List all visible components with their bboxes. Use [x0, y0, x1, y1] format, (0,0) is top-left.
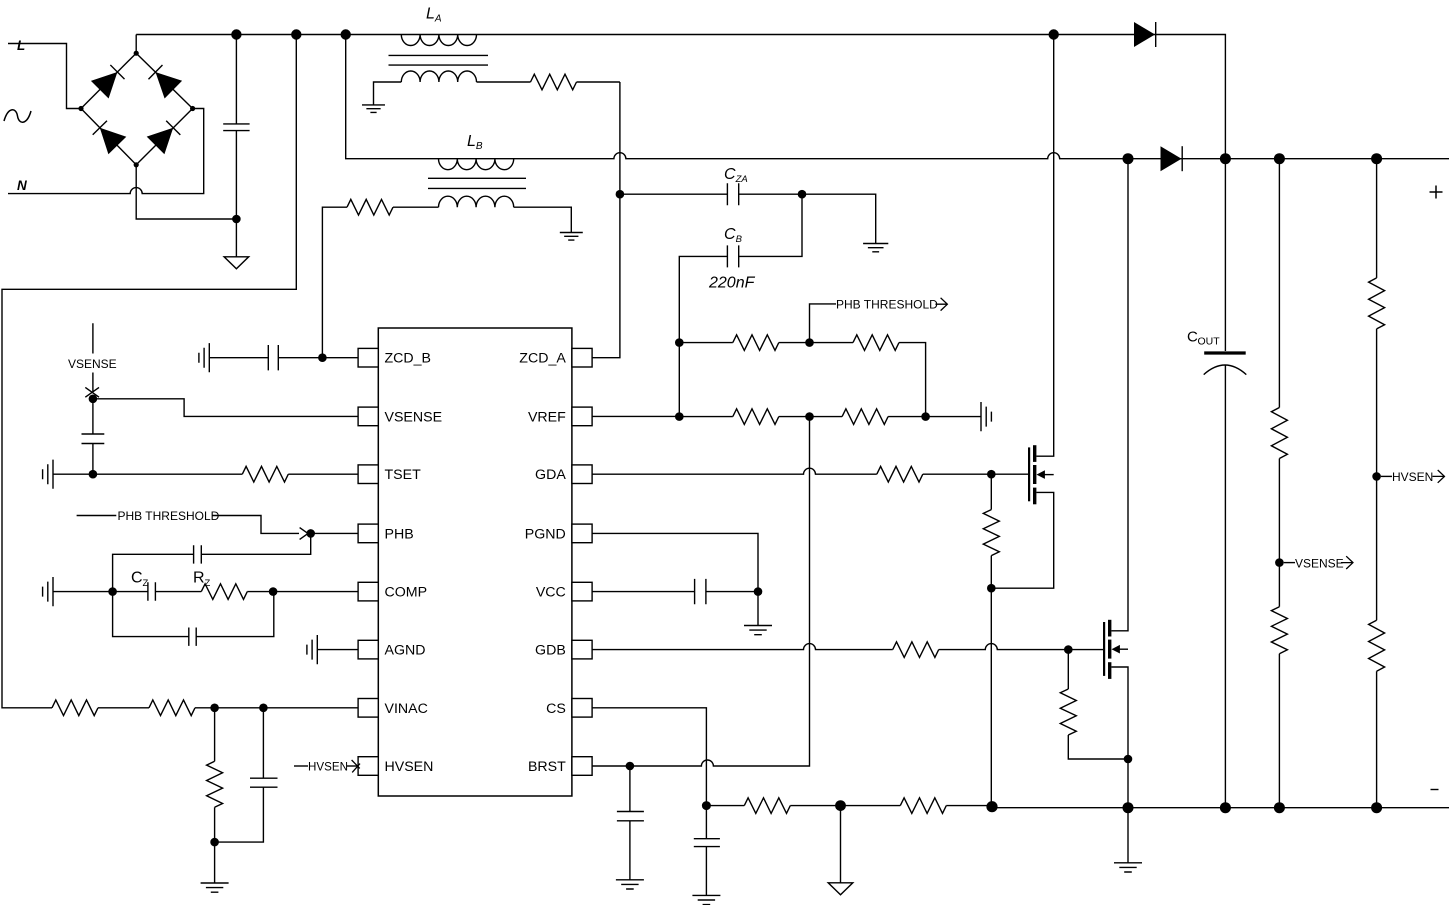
label VSENSE (net): [68, 357, 117, 371]
junction VINAC cap: [259, 704, 268, 713]
resistor R-PHB-upper-right: [853, 335, 899, 351]
wire COMP row left: [53, 591, 148, 593]
junction neg rail / QB: [1123, 802, 1134, 813]
junction rail2 / HVSEN divider: [1371, 153, 1382, 164]
junction top rail / left border: [291, 29, 301, 39]
junction shunt / neg rail: [986, 801, 997, 812]
wire shunt right: [946, 805, 992, 807]
ground BRST: [616, 880, 644, 889]
label COUT: [1187, 329, 1220, 348]
capacitor VSENSE: [82, 434, 105, 444]
wire CS: [592, 708, 707, 806]
label PHB THRESHOLD (net): [836, 298, 938, 312]
AC source symbol: [4, 110, 31, 122]
transistor QA: [1029, 445, 1054, 504]
junction HVSEN tap (output): [1372, 472, 1381, 481]
wire VCC ground: [757, 592, 759, 626]
wire bridge bottom to cap: [136, 165, 236, 219]
label RZ: [193, 570, 211, 590]
svg-text:TSET: TSET: [385, 467, 422, 483]
junction top rail / phase B branch: [341, 29, 351, 39]
ground CS: [692, 895, 720, 904]
wire PHB cap to COMP node: [113, 554, 194, 591]
junction row2 right: [921, 412, 930, 421]
label CZ: [131, 570, 149, 590]
wire VINAC mid: [98, 707, 149, 709]
junction VCC/PGND: [754, 587, 763, 596]
wire PHB threshold to pin: [212, 516, 299, 534]
label + output: [1430, 186, 1443, 199]
wire GDB resistor to gate: [939, 644, 1103, 650]
svg-text:VREF: VREF: [528, 409, 566, 425]
wire VINAC resistor to ground node: [214, 807, 216, 842]
resistor GDA gate: [877, 466, 923, 482]
capacitor CB: [727, 245, 738, 267]
wire VREF node to BRST: [630, 417, 810, 766]
svg-text:CS: CS: [546, 701, 566, 717]
junction ZCD_A / CZA: [616, 190, 625, 199]
svg-text:220nF: 220nF: [708, 275, 756, 292]
wire VSENSE tap to cap: [92, 399, 94, 434]
ground AGND: [307, 635, 317, 664]
ground LA aux: [362, 105, 385, 113]
svg-text:R: R: [193, 570, 205, 587]
bridge diode bottom-right: [136, 109, 192, 165]
wire QA gate resistor top: [990, 474, 992, 509]
label PHB THRESHOLD (left net): [118, 509, 220, 523]
svg-text:GDB: GDB: [535, 643, 566, 659]
junction VINAC ground node: [210, 838, 219, 847]
capacitor COMP feedback: [189, 628, 196, 646]
wire shunt mid: [790, 805, 900, 807]
junction COMP left: [108, 587, 117, 596]
core LB: [428, 178, 526, 188]
junction BRST: [626, 762, 635, 771]
capacitor CZA: [727, 183, 738, 205]
arrow PHB input: [300, 528, 312, 540]
diode DB: [1161, 146, 1183, 171]
arrow HVSEN input: [352, 760, 360, 772]
wire HVSEN tap dash: [1381, 475, 1392, 477]
wire VSENSE to pin: [93, 399, 358, 417]
wire QB source: [1111, 667, 1128, 759]
wire rail2 to RH1: [1376, 159, 1378, 278]
junction QA source node: [987, 584, 996, 593]
bridge node right: [190, 106, 195, 111]
wire RH2 to neg rail: [1376, 671, 1378, 808]
ground negative rail: [1114, 863, 1142, 872]
svg-text:HVSEN: HVSEN: [1392, 470, 1433, 484]
resistor VSENSE divider upper: [1271, 408, 1287, 459]
wire VREF pin to row2: [592, 415, 679, 417]
ground chassis (shunt): [828, 883, 853, 895]
wire VINAC cap to ground node: [215, 787, 264, 842]
svg-text:L: L: [17, 38, 25, 53]
wire negative rail: [992, 807, 1449, 809]
wire rail2 to COUT: [1224, 159, 1226, 351]
junction CS / shunt: [702, 801, 711, 810]
wire CS cap: [705, 806, 707, 839]
resistor HVSEN divider lower: [1369, 620, 1385, 671]
wire VINAC cap branch: [262, 708, 264, 778]
svg-text:GDA: GDA: [535, 467, 566, 483]
svg-text:AGND: AGND: [385, 643, 426, 659]
junction GDB gate node: [1064, 645, 1073, 654]
wire GDA row: [592, 468, 877, 474]
capacitor PHB-COMP: [194, 545, 202, 563]
wire shunt mid to chassis: [840, 806, 842, 883]
wire VINAC to pin: [195, 707, 358, 709]
label LB: [467, 133, 483, 152]
resistor VSENSE divider lower: [1271, 607, 1287, 654]
junction GDA gate node: [987, 470, 996, 479]
wire COUT to neg rail: [1224, 365, 1226, 808]
resistor QB gate-source: [1060, 689, 1076, 735]
arrow PHB THRESHOLD: [935, 298, 947, 311]
bridge node top: [134, 51, 139, 56]
svg-text:C: C: [131, 570, 143, 587]
junction COMP right: [269, 587, 278, 596]
wire ZCD_A vertical: [592, 82, 620, 358]
junction neg rail / COUT: [1220, 802, 1231, 813]
wire row2 to ground: [888, 416, 981, 418]
inductor LB aux winding: [439, 196, 514, 207]
resistor VINAC-2: [149, 700, 195, 716]
x-mark VSENSE tap: [85, 387, 99, 397]
svg-text:C: C: [1187, 329, 1198, 346]
wire QB drain to rail2: [1111, 159, 1128, 631]
wire RV2 to neg rail: [1278, 654, 1280, 808]
ground TSET: [43, 460, 53, 489]
resistor RZ: [201, 584, 247, 600]
wire ZCD_A to CZA: [620, 193, 728, 195]
junction QB source node: [1124, 755, 1133, 764]
svg-text:VSENSE: VSENSE: [1295, 556, 1344, 570]
svg-text:VSENSE: VSENSE: [68, 357, 117, 371]
ground COMP: [43, 577, 53, 606]
svg-text:VCC: VCC: [536, 585, 566, 601]
wire LA resistor to ZCD_A drop: [577, 81, 620, 83]
junction VSENSE tap (output): [1275, 558, 1284, 567]
wire VCC cap to ground node: [706, 591, 758, 593]
wire left border to VINAC: [2, 35, 296, 708]
svg-text:OUT: OUT: [1198, 336, 1221, 348]
node N (neutral input): [17, 178, 27, 193]
wire N input to bridge: [8, 109, 204, 194]
ground chassis (input): [224, 257, 249, 269]
wire COMP feedback cap: [113, 592, 274, 637]
wire ZCD_B ground to cap: [209, 357, 268, 359]
junction top rail / QA drain: [1049, 29, 1059, 39]
wire VINAC to lower resistor: [214, 708, 216, 762]
wire PHB threshold tap: [810, 304, 837, 343]
resistor shunt-2: [900, 798, 946, 814]
wire PGND: [592, 533, 758, 591]
capacitor input filter: [223, 124, 249, 131]
bridge diode bottom-left: [81, 109, 136, 165]
resistor GDB gate: [893, 642, 939, 658]
ground VINAC: [201, 883, 229, 892]
wire top rail: [136, 35, 1225, 159]
wire BRST: [592, 765, 630, 767]
wire CS cap to ground: [705, 847, 707, 896]
wire QA drain to top rail: [1036, 35, 1053, 457]
wire QB source to neg rail: [1127, 759, 1129, 808]
wire PHB threshold stub left: [77, 515, 117, 517]
resistor R-VREF-right: [842, 409, 888, 425]
wire CB to divider: [679, 256, 727, 342]
resistor R-PHB-upper-left: [733, 335, 779, 351]
junction TSET / VSENSE cap: [89, 470, 98, 479]
svg-text:N: N: [17, 178, 27, 193]
wire CZ to RZ: [155, 591, 201, 593]
wire L input to bridge: [8, 44, 79, 109]
label CZA: [724, 166, 748, 185]
wire row2 left: [679, 416, 733, 418]
capacitor COUT plate-: [1204, 365, 1247, 375]
resistor VINAC lower: [207, 761, 223, 807]
junction ZCD_B: [318, 353, 327, 362]
wire to chassis ground: [235, 219, 237, 257]
svg-text:PHB: PHB: [385, 526, 414, 542]
resistor VINAC-1: [52, 700, 98, 716]
wire VSENSE tap dash: [1284, 562, 1295, 564]
svg-text:PHB THRESHOLD: PHB THRESHOLD: [118, 509, 220, 523]
svg-text:ZCD_B: ZCD_B: [385, 351, 432, 367]
capacitor BRST: [617, 812, 644, 821]
label CB: [724, 226, 743, 245]
wire to VINAC ground: [214, 842, 216, 883]
wire BRST cap to ground: [629, 821, 631, 880]
wire CB right: [739, 194, 802, 256]
junction VSENSE tap: [89, 395, 98, 404]
bridge diode top-left: [81, 53, 136, 108]
capacitor CZ: [148, 582, 156, 601]
wire QB resistor to source node: [1068, 735, 1128, 759]
junction rail2 / DA cathode: [1220, 153, 1231, 164]
wire PHB to cap: [201, 533, 310, 554]
wire QB gate resistor: [1067, 650, 1069, 689]
wire HVSEN stub: [294, 765, 308, 767]
svg-text:HVSEN: HVSEN: [385, 759, 434, 775]
wire ZCD_B cap to pin: [278, 357, 358, 359]
ground ZCD_B: [199, 343, 209, 372]
wire CZA to ground: [739, 194, 876, 243]
wire neg rail ground drop: [1127, 808, 1129, 863]
capacitor VCC: [695, 579, 706, 604]
wire TSET row: [53, 473, 242, 475]
diode DA: [1134, 22, 1156, 47]
capacitor VINAC: [250, 778, 278, 787]
junction row2 mid: [805, 412, 814, 421]
wire QA source to shunt: [990, 588, 992, 808]
wire VSENSE cap to TSET row: [92, 444, 94, 475]
wire rail2 to RV1: [1278, 159, 1280, 408]
wire LA aux left to ground: [374, 82, 402, 105]
label LA: [426, 5, 442, 24]
ground VREF divider: [981, 402, 991, 431]
svg-text:BRST: BRST: [528, 759, 566, 775]
wire RH1 to tap: [1376, 329, 1378, 477]
resistor HVSEN divider upper: [1369, 278, 1385, 329]
wire GDB row: [592, 644, 893, 650]
wire LA aux to resistor: [477, 81, 531, 83]
wire PHB junction to pin: [311, 532, 358, 534]
svg-text:ZCD_A: ZCD_A: [519, 351, 566, 367]
wire BRST cap: [629, 766, 631, 812]
label - output: [1431, 789, 1439, 791]
wire VCC to cap: [592, 591, 695, 593]
svg-text:PGND: PGND: [525, 526, 566, 542]
wire LB aux to resistor: [393, 206, 439, 208]
wire tap to RH2: [1376, 476, 1378, 620]
junction row1 left: [675, 338, 684, 347]
wire row1 to row2: [899, 343, 926, 417]
wire row1 left: [679, 342, 733, 344]
svg-text:COMP: COMP: [385, 585, 428, 601]
wire GDA resistor to gate: [923, 473, 1028, 475]
junction PHB: [306, 529, 315, 538]
wire LB resistor to ZCD_B: [322, 207, 347, 358]
wire HVSEN arrow stem: [347, 765, 358, 767]
wire TSET resistor to pin: [288, 473, 358, 475]
junction shunt mid: [835, 800, 846, 811]
junction neg rail / VSENSE divider: [1274, 802, 1285, 813]
label 220nF: [708, 275, 756, 292]
wire bridge top to rail: [135, 35, 137, 54]
ground CZA: [863, 244, 888, 252]
IC pin labels left: [385, 351, 443, 775]
inductor LA aux winding: [401, 71, 476, 82]
capacitor CS filter: [694, 839, 720, 847]
svg-text:PHB THRESHOLD: PHB THRESHOLD: [836, 298, 938, 312]
junction input cap bottom: [232, 215, 241, 224]
wire RV1 to tap: [1278, 459, 1280, 563]
bridge node bottom: [134, 162, 139, 167]
IC U1 controller body and pin boxes: [358, 328, 592, 796]
junction row1 mid: [805, 338, 814, 347]
junction neg rail / HVSEN divider: [1371, 802, 1382, 813]
inductor LA: [401, 35, 476, 46]
svg-text:VINAC: VINAC: [385, 701, 428, 717]
resistor R-VREF-left: [733, 409, 779, 425]
inductor LB: [439, 159, 514, 170]
wire AGND: [317, 649, 358, 651]
wire QA source: [991, 492, 1053, 588]
wire RZ to pin: [247, 591, 358, 593]
resistor LA zcd: [531, 74, 577, 90]
bridge diode top-right: [136, 53, 192, 108]
ground VCC: [744, 626, 772, 635]
arrow HVSEN output: [1433, 470, 1445, 483]
wire row1-row2 link: [678, 343, 680, 417]
ground LB aux: [560, 233, 583, 241]
IC pin labels right: [519, 351, 566, 775]
wire input cap to bottom node: [235, 131, 237, 219]
capacitor COUT plate+: [1204, 351, 1246, 354]
junction row2 left: [675, 412, 684, 421]
resistor TSET: [242, 466, 288, 482]
wire VSENSE stub: [92, 323, 94, 392]
svg-text:HVSEN: HVSEN: [308, 761, 348, 774]
node L (line input): [17, 38, 25, 53]
label VSENSE (output net): [1295, 556, 1344, 570]
wire row2 mid: [779, 416, 842, 418]
core LA: [389, 55, 489, 65]
resistor LB zcd: [347, 199, 393, 215]
arrow VSENSE output: [1341, 556, 1353, 569]
resistor shunt-1: [744, 798, 790, 814]
wire rail to input cap: [235, 35, 237, 124]
svg-text:VSENSE: VSENSE: [385, 409, 443, 425]
junction rail2 / VSENSE divider: [1274, 153, 1285, 164]
wire row1 mid: [779, 342, 853, 344]
resistor QA gate-source: [983, 510, 999, 556]
wire tap to RV2: [1278, 563, 1280, 607]
transistor QB: [1104, 620, 1128, 679]
wire shunt row left: [706, 805, 744, 807]
junction CZA / CB: [798, 190, 807, 199]
junction VINAC divider: [210, 704, 219, 713]
bridge node left: [78, 106, 83, 111]
junction top rail / input cap: [231, 29, 241, 39]
capacitor ZCD_B: [268, 345, 278, 370]
label HVSEN (left net): [308, 761, 348, 774]
label HVSEN (output net): [1392, 470, 1433, 484]
junction rail2 / QB drain: [1123, 153, 1134, 164]
wire QA gate resistor bottom: [990, 556, 992, 589]
wire LB aux right to ground: [514, 207, 572, 232]
wire phase B rail: [346, 35, 1449, 159]
